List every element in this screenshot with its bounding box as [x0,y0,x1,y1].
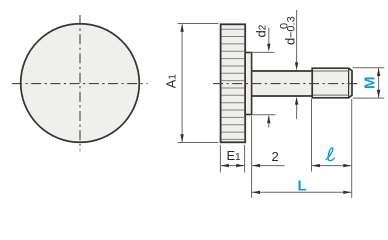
dimension L (total length) [252,177,351,194]
horizontal center line (front view) [12,83,148,85]
dimension A1 [164,24,219,143]
dimension 2 (neck length) [252,116,285,198]
threaded end (M) [312,68,352,98]
dimension d -0.3 (shaft dia with tolerance) [279,10,299,119]
dimension d2 (collar dia) [251,24,276,127]
collar (boss d2) [245,53,251,115]
thread chamfer line [348,68,350,98]
dimension E1 [220,145,244,173]
side view: knurled head [221,24,246,142]
svg-text:2: 2 [272,149,279,164]
thread minor diameter lines [313,70,349,72]
svg-text:L: L [298,177,307,194]
side view center line [213,83,358,85]
vertical center line (front view) [79,15,81,151]
dimension M (thread size) [353,68,385,98]
svg-text:0: 0 [279,23,291,29]
knurl lines [222,29,245,139]
svg-text:M: M [361,77,378,90]
front view circle (head outline) [21,24,140,143]
shaft (d-0.3) [252,71,313,96]
dimension l (thread length) [312,99,352,198]
